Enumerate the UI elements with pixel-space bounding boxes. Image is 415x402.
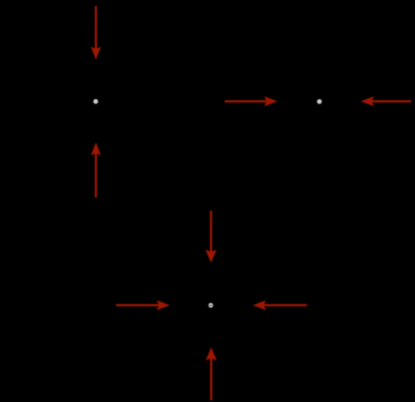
arrow: force F3a on node C (down) — [205, 211, 216, 263]
arrow: force F2b on node B (left) — [361, 96, 411, 106]
node C — [208, 303, 213, 308]
arrow: force F2a on node B (right) — [225, 96, 278, 106]
node A — [93, 99, 98, 104]
arrow: force F3d on node C (up) — [206, 347, 217, 400]
node B — [317, 99, 322, 104]
arrow: force F1b on node A (up) — [91, 142, 101, 197]
arrow: force F3c on node C (left) — [253, 300, 307, 310]
arrow: force F3b on node C (right) — [116, 300, 170, 310]
node C shading band — [208, 305, 213, 306]
arrow: force F1a on node A (down) — [91, 6, 101, 60]
